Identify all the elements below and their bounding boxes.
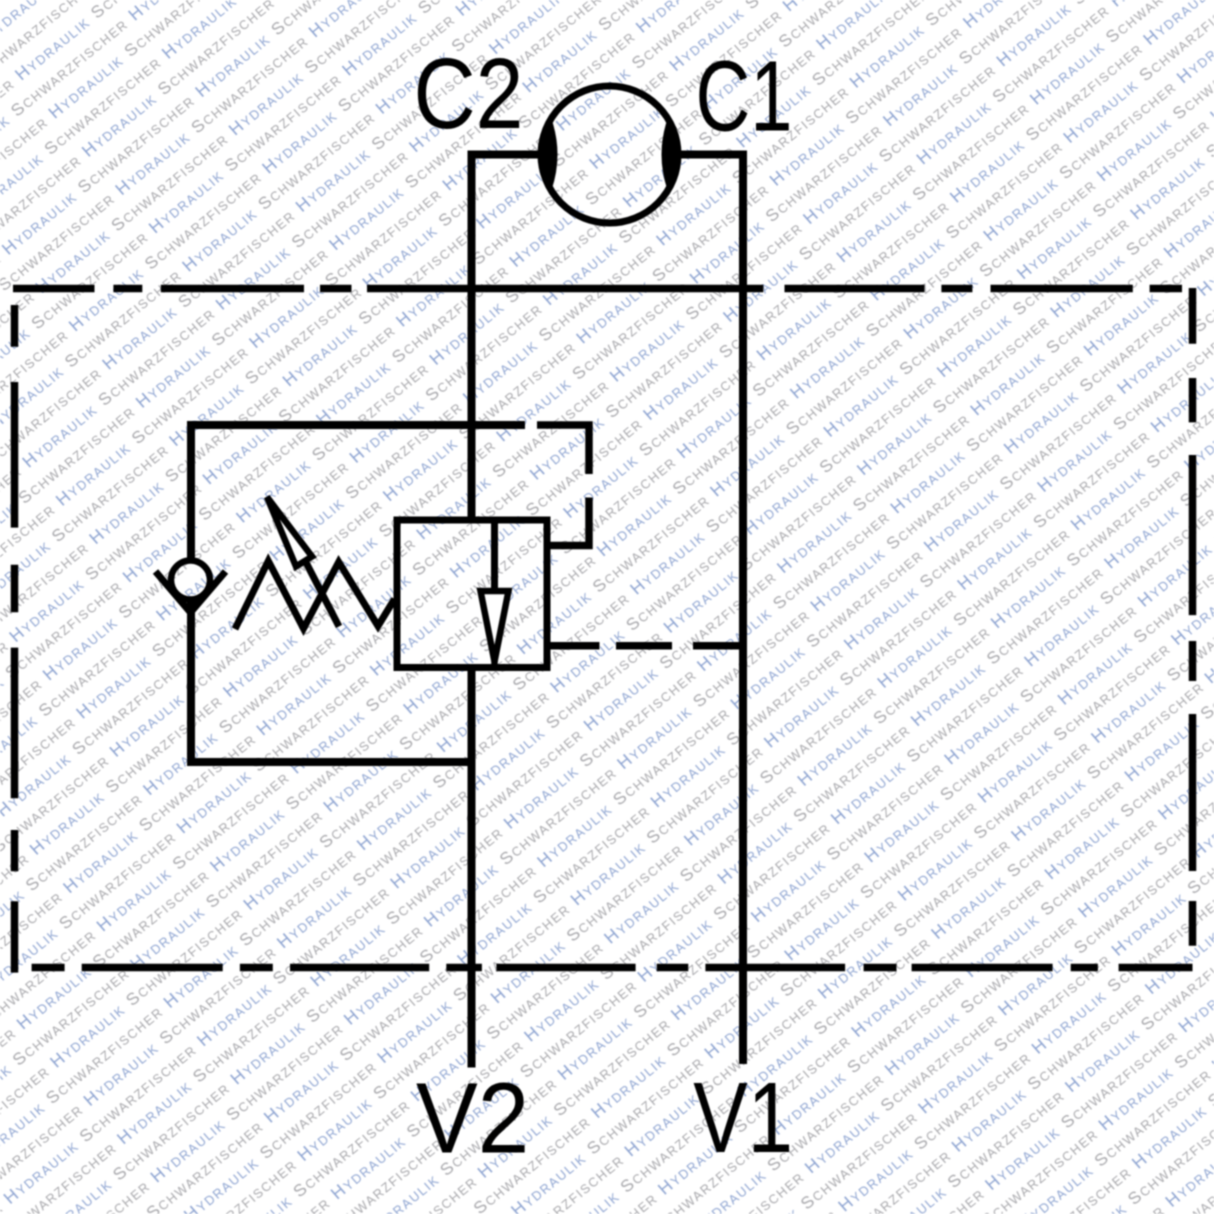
svg-text:V1: V1 <box>693 1062 793 1174</box>
svg-text:V2: V2 <box>416 1063 529 1175</box>
svg-text:C1: C1 <box>696 40 793 152</box>
svg-text:C2: C2 <box>414 38 524 150</box>
